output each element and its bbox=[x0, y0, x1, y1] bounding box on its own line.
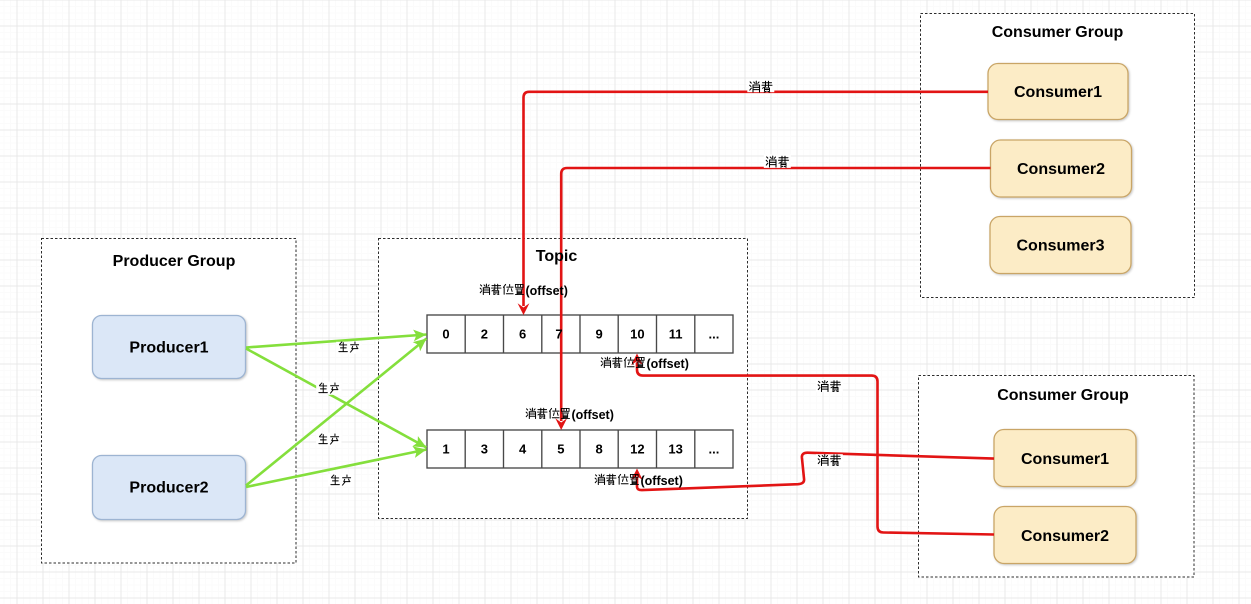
label: 生产 on green wire 4 bbox=[331, 475, 351, 485]
label: offset L3 (above row2) bbox=[526, 408, 614, 422]
label: 生产 on green wire 1 bbox=[339, 342, 359, 352]
group: Consumer Group (bottom) dashed container bbox=[919, 376, 1195, 578]
svg-text:2: 2 bbox=[481, 327, 488, 342]
svg-text:Producer1: Producer1 bbox=[129, 340, 208, 357]
svg-text:Consumer Group: Consumer Group bbox=[997, 387, 1129, 404]
svg-text:4: 4 bbox=[519, 442, 527, 457]
group: Producer Group dashed container bbox=[42, 239, 297, 564]
label: 消费 on wire red 2 bbox=[766, 156, 788, 167]
svg-text:Consumer1: Consumer1 bbox=[1021, 451, 1109, 468]
svg-text:12: 12 bbox=[630, 442, 644, 457]
label backgrounds (white) bbox=[316, 79, 843, 486]
label: 生产 on green wire 3 bbox=[319, 434, 339, 444]
svg-text:...: ... bbox=[708, 327, 719, 342]
svg-text:(offset): (offset) bbox=[572, 408, 614, 422]
svg-text:(offset): (offset) bbox=[641, 474, 683, 488]
label: 消费 on wire red 4 bbox=[818, 455, 840, 466]
wire green: Producer1 -> row1 bbox=[246, 335, 427, 348]
label: 生产 on green wire 2 bbox=[319, 383, 339, 393]
node Producer1 bbox=[93, 316, 246, 379]
wire red 2: Consumer2(top) -> row2 cell 5 bbox=[561, 168, 990, 421]
svg-text:0: 0 bbox=[442, 327, 449, 342]
svg-text:9: 9 bbox=[595, 327, 602, 342]
node Consumer2 (top group) bbox=[991, 140, 1132, 197]
node Producer2 bbox=[93, 456, 246, 520]
label: offset L1 (above row1) 消费位置(offset) bbox=[480, 284, 568, 298]
svg-text:11: 11 bbox=[669, 327, 683, 342]
svg-text:(offset): (offset) bbox=[526, 284, 568, 298]
wire green: Producer2 -> row2 bbox=[246, 450, 427, 488]
wire red 4: row2 cell 12 -> Consumer1(bottom) bbox=[637, 453, 994, 490]
node Consumer1 (top group) bbox=[988, 64, 1128, 120]
row2 cell numbers bbox=[442, 442, 719, 457]
svg-text:Consumer1: Consumer1 bbox=[1014, 84, 1102, 101]
svg-text:8: 8 bbox=[595, 442, 602, 457]
node Consumer1 (bottom group) bbox=[994, 430, 1136, 487]
svg-text:5: 5 bbox=[557, 442, 564, 457]
svg-text:(offset): (offset) bbox=[647, 357, 689, 371]
group: Consumer Group (top) dashed container bbox=[921, 14, 1195, 298]
svg-text:Consumer2: Consumer2 bbox=[1021, 528, 1109, 545]
svg-text:...: ... bbox=[708, 442, 719, 457]
wire red 1: Consumer1(top) -> row1 cell 6 bbox=[524, 92, 989, 306]
node Consumer3 (top group) bbox=[990, 217, 1131, 274]
label: offset L2 (below row1) bbox=[601, 357, 689, 371]
svg-text:6: 6 bbox=[519, 327, 526, 342]
svg-text:Consumer Group: Consumer Group bbox=[992, 24, 1124, 41]
svg-text:Consumer3: Consumer3 bbox=[1016, 238, 1104, 255]
svg-text:7: 7 bbox=[555, 327, 562, 342]
svg-text:Topic: Topic bbox=[536, 248, 578, 265]
wire green: Producer1 -> row2 bbox=[246, 349, 427, 448]
svg-text:10: 10 bbox=[630, 327, 644, 342]
svg-text:Consumer2: Consumer2 bbox=[1017, 161, 1105, 178]
wire green: Producer2 -> row1 bbox=[246, 339, 427, 486]
group: Topic dashed container bbox=[379, 239, 748, 519]
label: 消费 on wire red 1 bbox=[750, 81, 772, 92]
svg-text:3: 3 bbox=[481, 442, 488, 457]
row1 cell numbers bbox=[442, 327, 719, 342]
partition row 1 cells bbox=[427, 315, 733, 353]
wire red 3: row1 cell 10 -> Consumer2(bottom) bbox=[637, 363, 994, 535]
svg-text:Producer2: Producer2 bbox=[129, 480, 208, 497]
svg-text:1: 1 bbox=[442, 442, 449, 457]
label: 消费 on wire red 3 bbox=[818, 381, 840, 392]
partition row 2 cells bbox=[427, 430, 733, 468]
svg-text:13: 13 bbox=[668, 442, 682, 457]
label: offset L4 (below row2) bbox=[595, 474, 683, 488]
node Consumer2 (bottom group) bbox=[994, 507, 1136, 564]
svg-text:Producer Group: Producer Group bbox=[113, 253, 236, 270]
